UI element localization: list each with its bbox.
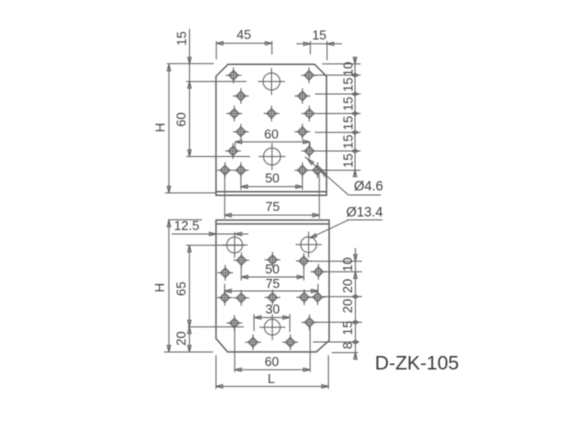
top right ladder extension line 7 <box>315 169 361 171</box>
svg-text:15: 15 <box>341 134 356 148</box>
bottom plate small hole U2 <box>282 334 298 350</box>
extension line top edge (left) <box>167 63 214 65</box>
bottom plate small hole S5 <box>310 289 326 305</box>
top plate small hole F3 <box>295 162 311 178</box>
svg-text:20: 20 <box>174 331 189 345</box>
extension line circle G2 row (left) <box>186 156 250 158</box>
svg-text:15: 15 <box>341 97 356 111</box>
svg-text:10: 10 <box>340 257 355 271</box>
bottom plate big hole P3 <box>259 314 285 340</box>
svg-text:H: H <box>152 283 167 292</box>
svg-text:15: 15 <box>340 321 355 335</box>
bottom plate big hole P2 <box>296 232 322 258</box>
dimension L <box>216 371 328 388</box>
svg-text:15: 15 <box>174 31 189 45</box>
svg-text:75: 75 <box>265 199 279 214</box>
top plate small hole F2 <box>233 162 249 178</box>
dimension 60 (top plate) extension lines <box>235 142 310 148</box>
bottom plate small hole R2 <box>311 264 327 280</box>
svg-text:60: 60 <box>265 354 279 369</box>
bottom plate small hole T2 <box>302 315 318 331</box>
bottom plate small hole T1 <box>227 315 243 331</box>
svg-text:H: H <box>152 123 167 132</box>
extension line bottom plate top edge (left) <box>168 219 202 221</box>
top plate small hole E2 <box>301 143 317 159</box>
bottom right ladder extension line 2 <box>325 271 363 273</box>
extension line circle G1 row (left) <box>186 81 246 83</box>
top right ladder extension line 5 <box>315 131 361 133</box>
svg-text:15: 15 <box>341 77 356 91</box>
svg-text:60: 60 <box>174 112 189 126</box>
top plate small hole D2 <box>295 124 311 140</box>
dimension H (bottom plate) <box>152 220 171 352</box>
svg-text:50: 50 <box>265 170 279 185</box>
dimension 75 (bottom plate) <box>225 276 318 293</box>
bottom plate small hole Q1 <box>234 252 250 268</box>
dimension 60 (bottom) extension lines <box>235 326 310 372</box>
dimension 75 (bottom plate) extension lines <box>225 284 318 294</box>
svg-text:15: 15 <box>341 153 356 167</box>
dimension 60 (bottom) <box>235 354 310 372</box>
top right ladder extension line 2 <box>315 74 361 76</box>
bottom plate small hole S4 <box>296 289 312 305</box>
extension line circle P1 row (left) <box>186 244 244 246</box>
dimension 30 extension lines <box>254 314 290 332</box>
dimension 60 (top plate) <box>235 126 310 143</box>
top plate small hole F1 <box>217 162 233 178</box>
bottom right ladder extension line 4 <box>315 321 362 323</box>
dimension 15 top-right extension lines <box>310 41 327 60</box>
dimension 45 <box>216 27 272 45</box>
top plate small hole E1 <box>225 143 241 159</box>
svg-text:20: 20 <box>340 279 355 293</box>
bottom plate big hole P1 <box>222 232 248 258</box>
top plate big hole G1 <box>258 68 285 95</box>
top plate small hole A1 <box>226 67 242 83</box>
leader diameter 4.6 <box>305 157 383 195</box>
top right ladder arrows <box>352 57 358 177</box>
extension line top plate bottom (left) <box>165 192 216 194</box>
top right ladder extension line 4 <box>315 113 361 115</box>
dimension 75 extension line right <box>318 175 320 219</box>
top plate small hole F4 <box>310 162 326 178</box>
dimension 60 left chain <box>174 82 192 157</box>
bottom right ladder extension line 3 <box>323 296 362 298</box>
bottom plate small hole U1 <box>245 334 261 350</box>
dimension 12.5 <box>172 218 249 236</box>
extension line bottom plate bottom edge (left) <box>164 351 213 353</box>
extension line circle P3 row (left) <box>188 326 244 328</box>
top plate small hole C3 <box>301 106 317 122</box>
bottom plate small hole Q2 <box>265 252 281 268</box>
bottom plate small hole R1 <box>217 265 233 281</box>
dimension 50 (top plate) extension lines <box>241 176 303 191</box>
bottom right ladder extension line 5 <box>313 341 359 343</box>
dimension 50 (bottom plate) <box>241 261 304 278</box>
top plate small hole B1 <box>233 88 249 104</box>
dimension 20 left chain <box>174 327 192 352</box>
svg-text:12.5: 12.5 <box>174 218 199 233</box>
bottom right ladder extension line 6 <box>332 352 358 354</box>
svg-text:50: 50 <box>265 261 279 276</box>
top plate small hole B2 <box>295 88 311 104</box>
svg-text:65: 65 <box>174 282 189 296</box>
top right ladder extension line 6 <box>315 150 361 152</box>
svg-text:10: 10 <box>341 62 356 76</box>
dimension 30 <box>254 302 289 320</box>
top right ladder dimension line <box>354 57 356 176</box>
svg-text:45: 45 <box>237 27 251 42</box>
top plate big hole G2 <box>259 143 286 170</box>
dimension 45 extension lines <box>216 41 272 60</box>
dimension 15 left chain <box>174 29 191 82</box>
top plate outline <box>216 64 327 195</box>
bottom right ladder extension line 1 <box>310 260 363 262</box>
svg-text:15: 15 <box>312 28 326 43</box>
dimension L extension lines <box>216 355 328 389</box>
svg-text:15: 15 <box>341 116 356 130</box>
top plate small hole C1 <box>226 106 242 122</box>
top plate small hole A2 <box>301 67 317 83</box>
dimension 75 extension line left <box>224 175 226 219</box>
leader diameter 13.4 <box>309 204 383 239</box>
dimension H (top plate) <box>152 64 170 193</box>
dimension 50 (top plate) <box>241 170 303 188</box>
dimension 65 left chain <box>174 245 192 327</box>
svg-text:Ø4.6: Ø4.6 <box>354 179 383 194</box>
svg-text:20: 20 <box>340 299 355 313</box>
svg-text:D-ZK-105: D-ZK-105 <box>375 353 459 375</box>
bottom plate outline <box>216 220 329 352</box>
dimension 15 top-right <box>296 28 342 46</box>
bottom right ladder arrows <box>352 255 358 360</box>
dimension 75 <box>225 199 320 217</box>
svg-text:L: L <box>268 371 275 386</box>
svg-text:30: 30 <box>265 302 279 317</box>
dimension 50 (bottom plate) extension lines <box>241 265 304 281</box>
svg-text:Ø13.4: Ø13.4 <box>346 204 383 219</box>
bottom plate small hole S3 <box>265 290 281 306</box>
bottom plate small hole S2 <box>233 290 249 306</box>
svg-text:60: 60 <box>264 126 278 141</box>
bottom plate small hole Q3 <box>296 253 312 269</box>
svg-text:75: 75 <box>265 276 279 291</box>
top right ladder extension line 3 <box>315 93 361 95</box>
top right ladder extension line 1 <box>322 63 361 65</box>
svg-text:8: 8 <box>340 342 355 349</box>
top plate small hole C2 <box>264 106 280 122</box>
bottom right ladder dimension line <box>354 248 356 359</box>
top plate small hole D1 <box>233 124 249 140</box>
bottom plate small hole S1 <box>217 290 233 306</box>
